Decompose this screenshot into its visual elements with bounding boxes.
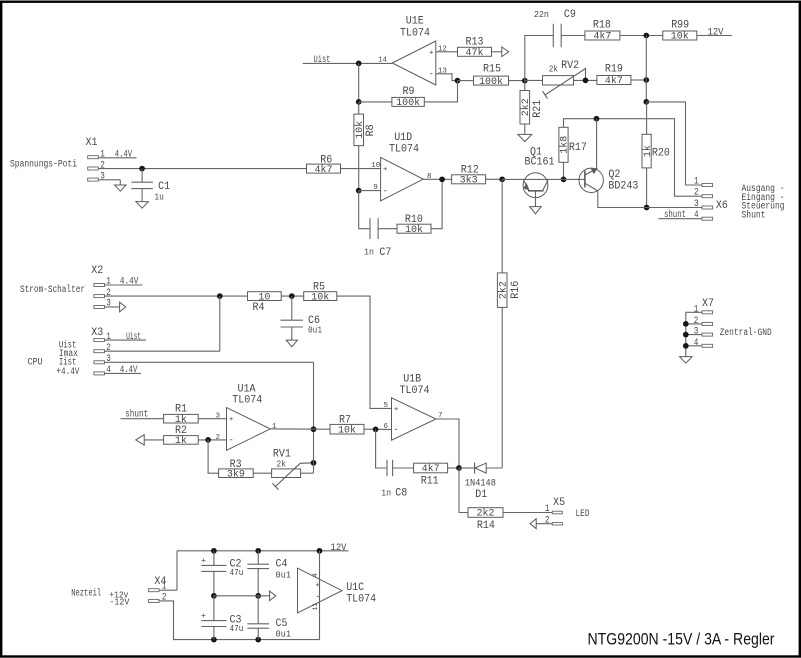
svg-text:BD243: BD243 [608, 181, 638, 193]
svg-text:12V: 12V [708, 28, 724, 39]
svg-text:3: 3 [100, 172, 105, 183]
svg-text:X5: X5 [553, 497, 565, 509]
svg-text:X2: X2 [91, 265, 103, 277]
svg-text:0u1: 0u1 [276, 571, 292, 581]
svg-text:RV2: RV2 [561, 60, 579, 72]
svg-text:R6: R6 [320, 155, 332, 167]
svg-text:R13: R13 [466, 36, 484, 48]
svg-text:-: - [393, 425, 398, 435]
svg-text:1: 1 [162, 582, 167, 593]
svg-text:R99: R99 [671, 20, 689, 32]
svg-text:14: 14 [378, 56, 388, 64]
svg-text:R20: R20 [652, 148, 670, 160]
svg-text:R15: R15 [483, 64, 501, 76]
svg-text:+4.4V: +4.4V [56, 367, 79, 378]
svg-text:X7: X7 [702, 298, 714, 310]
svg-text:-12V: -12V [109, 597, 130, 607]
svg-text:Q2: Q2 [608, 169, 620, 181]
svg-text:1: 1 [545, 504, 550, 515]
svg-text:4.4V: 4.4V [120, 365, 137, 376]
svg-text:R16: R16 [510, 281, 522, 299]
svg-text:1: 1 [694, 305, 699, 316]
svg-text:1: 1 [694, 177, 699, 188]
svg-text:47u: 47u [230, 624, 244, 634]
svg-text:U1C: U1C [346, 582, 364, 594]
svg-text:C9: C9 [564, 9, 576, 21]
svg-text:2k2: 2k2 [476, 508, 494, 520]
svg-text:2: 2 [216, 434, 221, 442]
svg-text:10k: 10k [671, 31, 689, 43]
svg-text:11: 11 [312, 603, 319, 611]
svg-text:R14: R14 [477, 520, 495, 532]
svg-text:R9: R9 [403, 86, 415, 98]
svg-text:47u: 47u [230, 568, 244, 578]
svg-text:X6: X6 [716, 200, 728, 212]
svg-text:0u1: 0u1 [276, 630, 292, 640]
svg-text:R5: R5 [313, 281, 325, 293]
svg-text:4k7: 4k7 [422, 463, 440, 475]
svg-text:R12: R12 [461, 165, 479, 177]
svg-text:2k: 2k [549, 65, 558, 75]
svg-text:3: 3 [694, 199, 699, 210]
svg-text:22n: 22n [534, 10, 549, 20]
svg-text:R19: R19 [605, 64, 623, 76]
svg-text:R10: R10 [405, 214, 423, 226]
svg-text:1n: 1n [381, 488, 391, 498]
svg-text:1u: 1u [154, 193, 164, 203]
svg-text:2: 2 [100, 161, 105, 172]
svg-text:-: - [382, 186, 387, 196]
svg-text:R2: R2 [175, 425, 187, 437]
svg-text:Zentral-GND: Zentral-GND [720, 327, 772, 339]
svg-text:2: 2 [694, 188, 699, 199]
svg-text:R18: R18 [593, 20, 611, 32]
svg-text:2: 2 [106, 343, 111, 354]
svg-text:R17: R17 [569, 142, 587, 154]
svg-text:3: 3 [106, 354, 111, 365]
svg-text:1: 1 [106, 277, 111, 288]
svg-text:4k7: 4k7 [605, 75, 623, 87]
svg-text:Strom-Schalter: Strom-Schalter [20, 284, 85, 296]
svg-text:R3: R3 [230, 459, 242, 471]
svg-text:C5: C5 [276, 618, 288, 630]
svg-text:X1: X1 [86, 137, 98, 149]
svg-text:Shunt: Shunt [742, 209, 766, 221]
svg-text:LED: LED [576, 509, 590, 520]
svg-text:U1D: U1D [394, 132, 412, 144]
svg-text:BC161: BC161 [525, 157, 555, 169]
svg-text:2k2: 2k2 [497, 281, 509, 299]
svg-text:4: 4 [312, 573, 319, 577]
svg-text:5: 5 [384, 402, 389, 410]
svg-text:R11: R11 [421, 475, 439, 487]
svg-text:10: 10 [371, 162, 381, 170]
svg-text:4: 4 [694, 338, 699, 349]
svg-text:12: 12 [438, 46, 447, 54]
svg-text:2k2: 2k2 [520, 98, 532, 116]
svg-text:X3: X3 [91, 327, 103, 339]
svg-text:R4: R4 [253, 302, 265, 314]
svg-text:100k: 100k [479, 76, 503, 88]
svg-text:-: - [428, 70, 433, 80]
svg-text:C1: C1 [158, 181, 170, 193]
svg-text:1N4148: 1N4148 [465, 478, 496, 489]
svg-text:CPU: CPU [28, 358, 43, 369]
svg-text:4.4V: 4.4V [115, 149, 133, 160]
svg-text:4: 4 [694, 210, 699, 221]
svg-text:+: + [429, 49, 434, 57]
svg-text:TL074: TL074 [400, 385, 430, 397]
svg-text:Uist: Uist [314, 54, 331, 66]
svg-text:U1B: U1B [403, 374, 421, 386]
svg-text:R1: R1 [175, 404, 187, 416]
svg-text:C7: C7 [379, 247, 391, 259]
svg-text:RV1: RV1 [273, 449, 291, 461]
svg-text:47k: 47k [465, 47, 483, 59]
svg-text:4k7: 4k7 [593, 31, 611, 43]
svg-text:TL074: TL074 [346, 593, 376, 605]
svg-text:+: + [383, 166, 388, 174]
svg-text:Uist: Uist [126, 331, 141, 343]
svg-text:-: - [228, 436, 233, 446]
svg-text:12V: 12V [331, 543, 347, 554]
svg-text:6: 6 [384, 423, 389, 431]
svg-text:TL074: TL074 [400, 27, 430, 39]
svg-text:R21: R21 [532, 99, 544, 117]
svg-text:NTG9200N -15V / 3A - Regler: NTG9200N -15V / 3A - Regler [588, 629, 775, 648]
svg-text:1: 1 [100, 149, 105, 160]
svg-text:4.4V: 4.4V [120, 277, 138, 288]
svg-text:TL074: TL074 [389, 144, 419, 156]
svg-text:2: 2 [694, 316, 699, 327]
svg-text:4: 4 [106, 365, 111, 376]
svg-text:2: 2 [162, 592, 167, 603]
svg-text:TL074: TL074 [232, 394, 262, 406]
svg-text:R7: R7 [339, 414, 351, 426]
svg-text:0u1: 0u1 [308, 326, 322, 336]
svg-text:2k: 2k [277, 459, 287, 469]
svg-text:1: 1 [272, 423, 277, 431]
svg-text:+: + [201, 557, 206, 566]
svg-text:3: 3 [694, 327, 699, 338]
svg-text:100k: 100k [396, 97, 420, 109]
svg-text:1: 1 [106, 332, 111, 343]
svg-text:C8: C8 [395, 487, 407, 499]
svg-text:+: + [201, 612, 206, 621]
svg-text:Spannungs-Poti: Spannungs-Poti [10, 159, 77, 171]
svg-text:1n: 1n [364, 248, 374, 258]
svg-text:+: + [229, 416, 234, 424]
svg-text:2: 2 [106, 288, 111, 299]
svg-text:U1E: U1E [406, 16, 424, 28]
svg-text:3: 3 [106, 299, 111, 310]
svg-text:C4: C4 [276, 558, 288, 570]
svg-text:D1: D1 [475, 489, 487, 501]
svg-text:+: + [394, 406, 399, 414]
svg-text:Nezteil: Nezteil [71, 587, 101, 599]
svg-text:2: 2 [545, 515, 550, 526]
svg-text:R8: R8 [365, 124, 377, 136]
